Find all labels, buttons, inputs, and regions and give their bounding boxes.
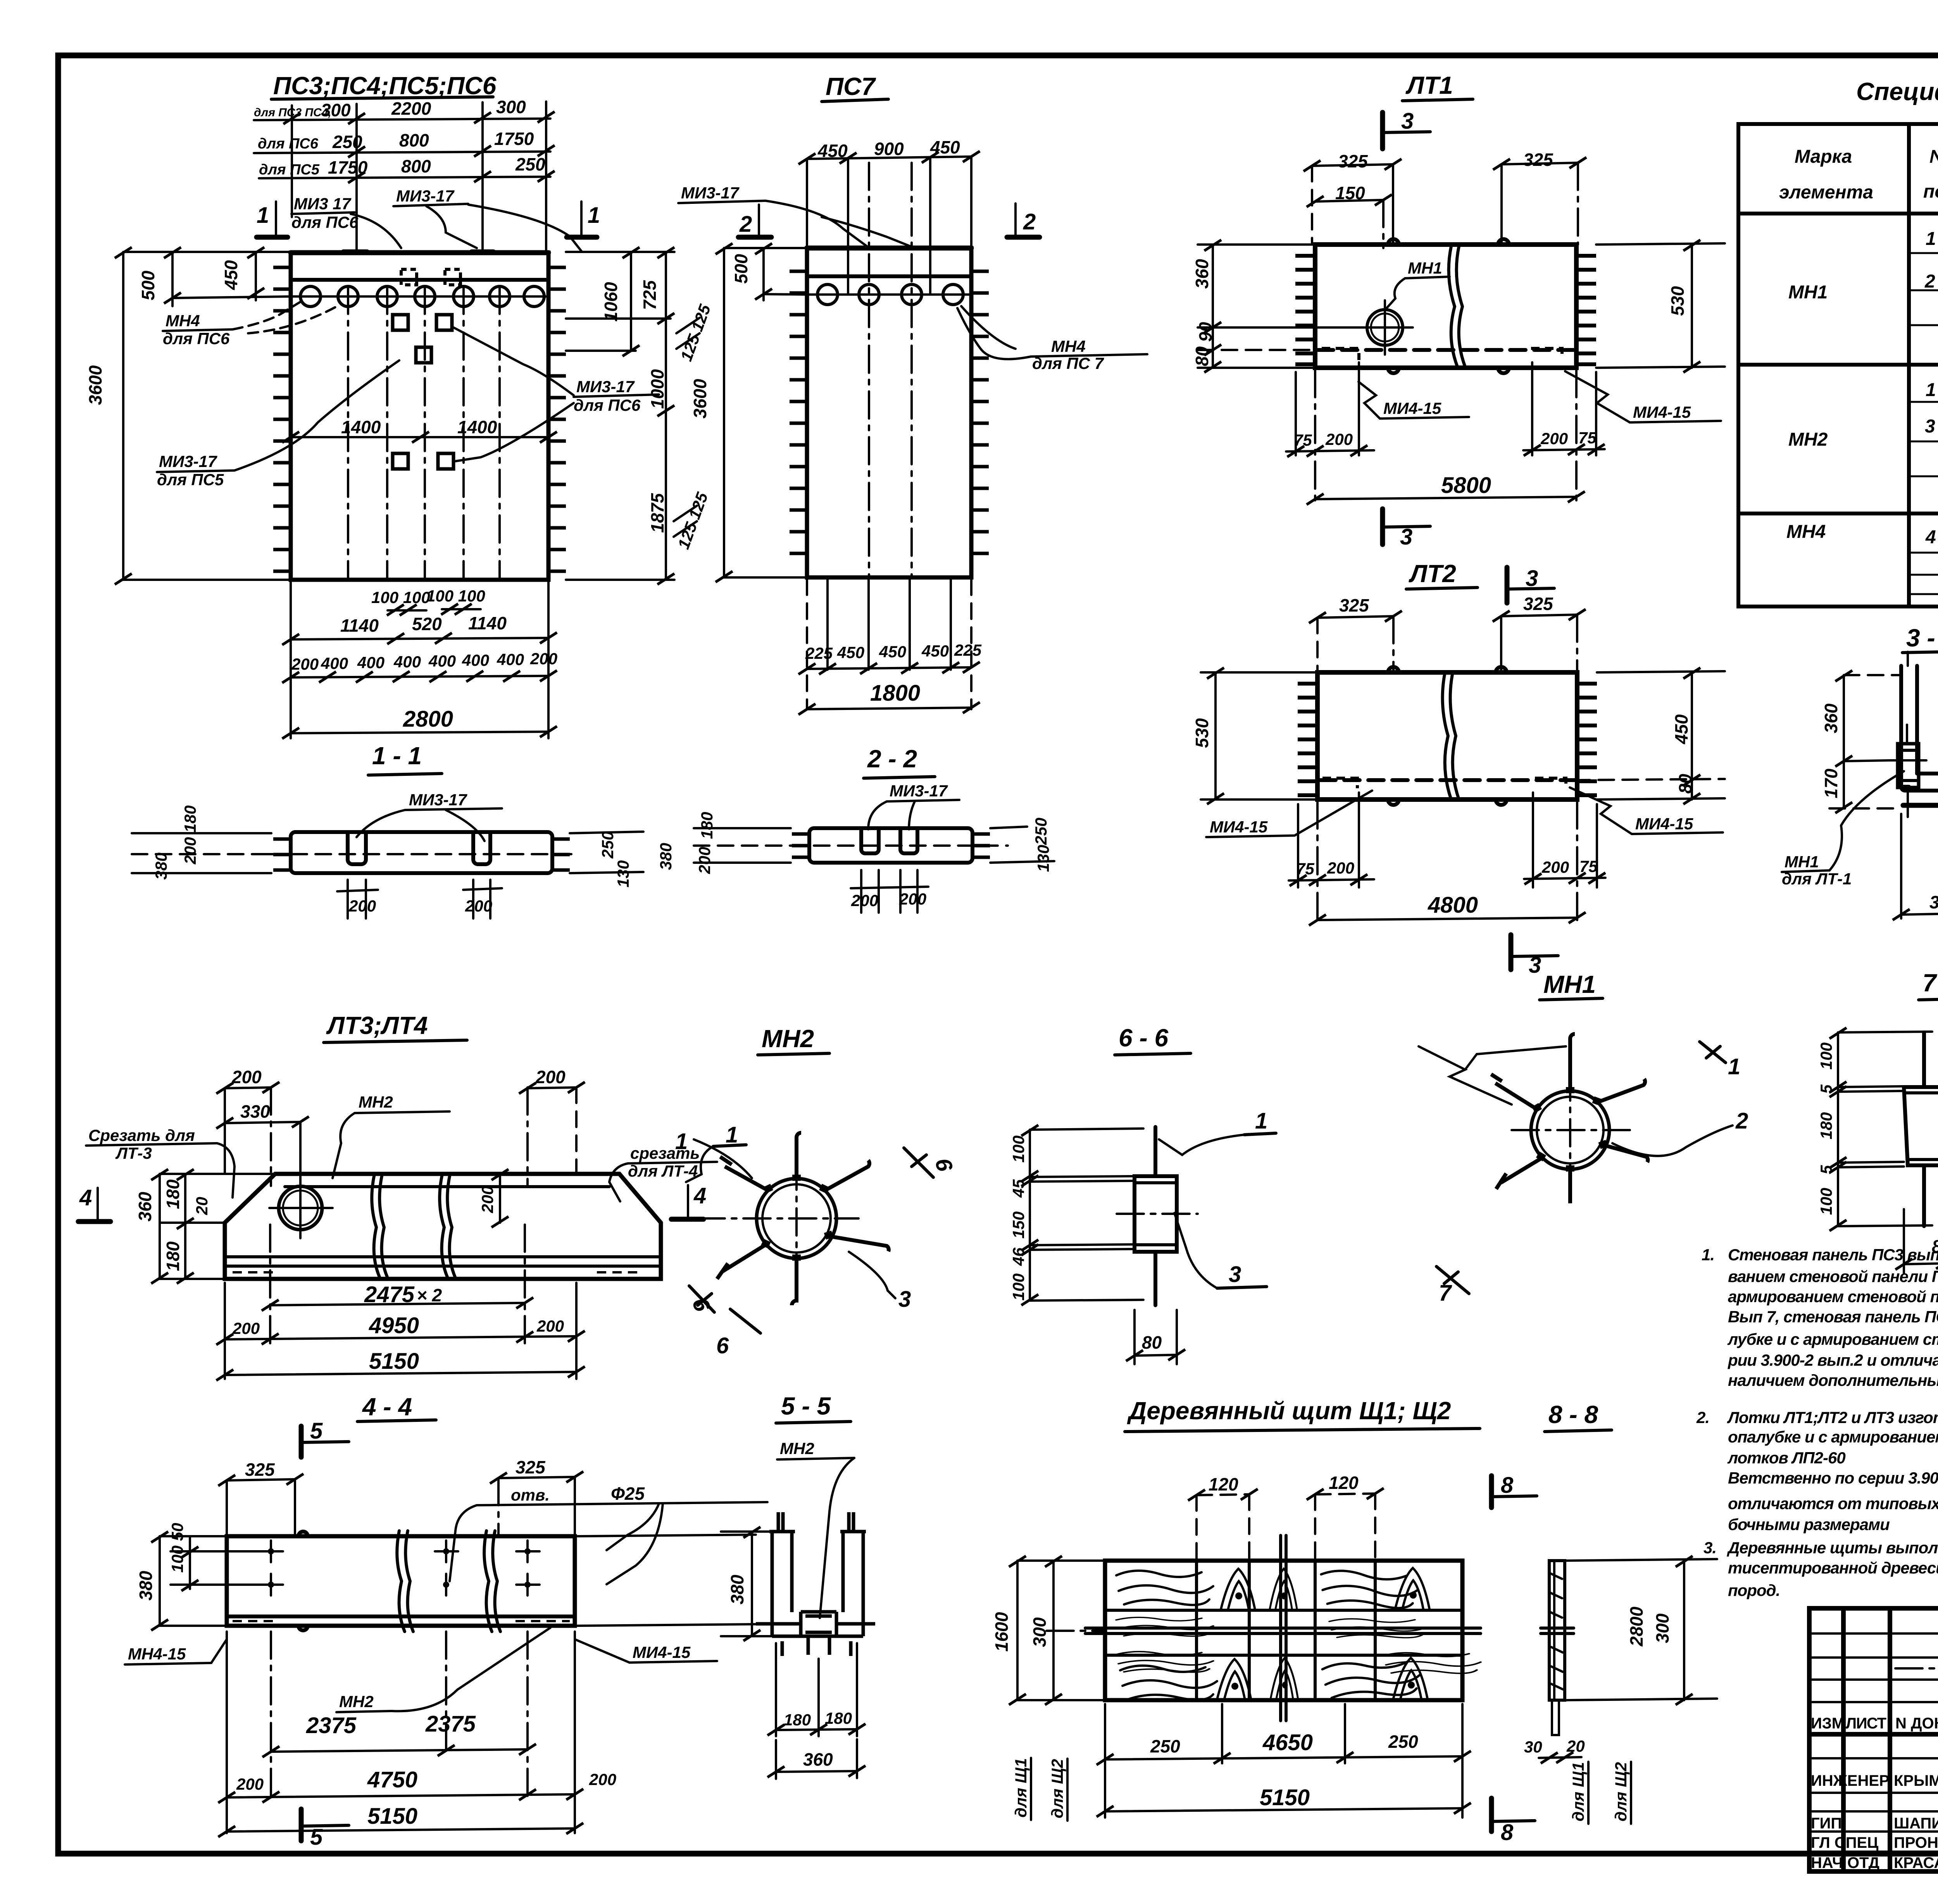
svg-text:Марка: Марка: [1795, 146, 1852, 167]
svg-text:380: 380: [657, 843, 675, 870]
svg-text:360: 360: [803, 1749, 833, 1770]
svg-text:5150: 5150: [367, 1804, 417, 1829]
svg-text:1: 1: [1255, 1108, 1267, 1134]
svg-text:ЛТ1: ЛТ1: [1405, 71, 1453, 99]
svg-text:3: 3: [1529, 953, 1541, 978]
svg-text:МИ4-15: МИ4-15: [1633, 403, 1691, 421]
svg-text:1750: 1750: [494, 129, 534, 149]
svg-text:для ЛТ-4: для ЛТ-4: [628, 1162, 698, 1180]
svg-text:Деревянные щиты выполнять из а: Деревянные щиты выполнять из ан-: [1727, 1539, 1938, 1557]
svg-text:3: 3: [1925, 416, 1935, 437]
svg-text:1140: 1140: [340, 615, 379, 636]
svg-text:Лотки ЛТ1;ЛТ2 и ЛТ3 изготовляю: Лотки ЛТ1;ЛТ2 и ЛТ3 изготовляются в: [1727, 1408, 1938, 1427]
svg-text:250: 250: [332, 132, 362, 152]
svg-text:Деревянный щит Щ1; Щ2: Деревянный щит Щ1; Щ2: [1127, 1397, 1451, 1425]
svg-text:3: 3: [1229, 1262, 1241, 1287]
svg-text:ГЛ СПЕЦ: ГЛ СПЕЦ: [1811, 1834, 1878, 1851]
svg-text:250: 250: [1150, 1736, 1180, 1756]
svg-text:180: 180: [163, 1179, 183, 1209]
svg-text:200: 200: [236, 1775, 264, 1793]
svg-text:3: 3: [898, 1287, 911, 1312]
svg-text:3: 3: [1401, 109, 1414, 134]
svg-text:200: 200: [348, 897, 376, 915]
svg-text:4: 4: [79, 1185, 92, 1210]
svg-text:ЛТ-3: ЛТ-3: [115, 1144, 152, 1162]
svg-text:4650: 4650: [1262, 1730, 1313, 1755]
svg-text:Спецификация металла на одну м: Спецификация металла на одну марку: [1856, 78, 1938, 105]
svg-text:ИНЖЕНЕР: ИНЖЕНЕР: [1811, 1772, 1890, 1789]
svg-text:МИ3-17: МИ3-17: [396, 187, 455, 205]
svg-text:8 - 8: 8 - 8: [1548, 1401, 1598, 1428]
svg-text:ШАПИРО: ШАПИРО: [1894, 1815, 1938, 1832]
svg-text:200: 200: [465, 897, 492, 915]
svg-text:МИ3-17: МИ3-17: [409, 791, 467, 809]
svg-text:360: 360: [135, 1192, 155, 1222]
svg-text:МИ3-17: МИ3-17: [681, 184, 740, 202]
svg-text:100 50: 100 50: [168, 1523, 186, 1573]
svg-text:3.: 3.: [1704, 1539, 1716, 1557]
svg-text:450: 450: [1671, 714, 1691, 744]
svg-text:для Щ1: для Щ1: [1012, 1758, 1030, 1818]
svg-text:500: 500: [731, 254, 751, 284]
svg-text:120: 120: [1209, 1474, 1238, 1494]
svg-text:МН2: МН2: [359, 1093, 393, 1111]
svg-text:2 - 2: 2 - 2: [867, 745, 917, 773]
svg-text:2800: 2800: [1626, 1606, 1647, 1647]
svg-text:МН2: МН2: [339, 1692, 374, 1711]
svg-text:200: 200: [695, 847, 714, 874]
svg-text:МН2: МН2: [780, 1439, 814, 1458]
svg-text:800: 800: [399, 130, 429, 150]
svg-text:5: 5: [310, 1825, 323, 1850]
svg-text:Срезать для: Срезать для: [88, 1126, 195, 1144]
svg-text:300: 300: [321, 100, 351, 120]
svg-text:725: 725: [640, 280, 660, 310]
svg-text:400: 400: [393, 653, 421, 671]
svg-text:МН1: МН1: [1408, 259, 1442, 277]
svg-text:100: 100: [1817, 1042, 1835, 1070]
svg-text:325: 325: [245, 1459, 275, 1480]
svg-text:325: 325: [1339, 595, 1369, 615]
svg-text:МН4: МН4: [1786, 522, 1826, 542]
svg-text:200: 200: [535, 1067, 566, 1087]
svg-text:3600: 3600: [690, 379, 710, 419]
svg-text:3 - 3: 3 - 3: [1906, 624, 1938, 652]
svg-text:ГИП: ГИП: [1811, 1815, 1842, 1832]
svg-text:2375: 2375: [306, 1713, 357, 1738]
svg-text:2375: 2375: [425, 1711, 476, 1737]
svg-text:200: 200: [232, 1319, 260, 1337]
svg-text:2: 2: [1924, 271, 1935, 292]
svg-text:380: 380: [152, 853, 170, 880]
svg-text:4750: 4750: [367, 1767, 417, 1792]
svg-text:4800: 4800: [1428, 893, 1478, 918]
svg-text:380: 380: [727, 1575, 747, 1604]
svg-text:для ПС6: для ПС6: [574, 396, 641, 414]
svg-text:180: 180: [1817, 1112, 1835, 1139]
svg-text:МН1: МН1: [1785, 853, 1819, 871]
svg-text:5150: 5150: [369, 1349, 419, 1374]
svg-text:250: 250: [1032, 818, 1050, 845]
svg-text:Ветственно по серии 3.900-2 Вы: Ветственно по серии 3.900-2 Вып.6 и: [1728, 1469, 1938, 1487]
svg-text:330: 330: [240, 1101, 270, 1122]
svg-text:для ЛТ-1: для ЛТ-1: [1782, 870, 1852, 888]
svg-text:500: 500: [138, 271, 158, 300]
svg-text:для ПС 7: для ПС 7: [1032, 354, 1104, 372]
svg-text:2: 2: [739, 212, 752, 237]
svg-text:360: 360: [1929, 892, 1938, 912]
svg-text:ванием стеновой панели ПБ41-36: ванием стеновой панели ПБ41-36-1 ПС7 - в…: [1728, 1267, 1938, 1285]
svg-text:8: 8: [1501, 1473, 1514, 1498]
svg-text:лотков ЛП2-60: лотков ЛП2-60: [1727, 1449, 1845, 1467]
svg-text:4 - 4: 4 - 4: [362, 1393, 412, 1421]
svg-text:200 180: 200 180: [181, 805, 199, 865]
svg-text:1: 1: [1926, 229, 1936, 249]
svg-text:250: 250: [1388, 1732, 1418, 1752]
svg-text:5: 5: [1817, 1165, 1835, 1174]
svg-text:530: 530: [1192, 718, 1212, 748]
svg-text:325: 325: [516, 1457, 546, 1477]
svg-text:МН2: МН2: [762, 1025, 814, 1053]
svg-text:6 - 6: 6 - 6: [1119, 1024, 1168, 1052]
svg-text:1400: 1400: [457, 417, 497, 437]
svg-text:180: 180: [825, 1709, 852, 1727]
svg-text:Вып 7, стеновая панель ПС4, ПС: Вып 7, стеновая панель ПС4, ПС5, ПС6 вып…: [1728, 1308, 1938, 1326]
svg-text:450: 450: [221, 260, 241, 290]
svg-text:1 - 1: 1 - 1: [372, 742, 422, 770]
svg-text:5 - 5: 5 - 5: [781, 1392, 831, 1420]
svg-text:N ДОК.ЧМ: N ДОК.ЧМ: [1895, 1715, 1938, 1732]
svg-text:80: 80: [1142, 1332, 1162, 1353]
svg-text:отличаются от типовых только о: отличаются от типовых только опалу-: [1728, 1494, 1938, 1513]
svg-text:ЛИСТ: ЛИСТ: [1846, 1715, 1886, 1732]
svg-text:для ПС5: для ПС5: [259, 162, 320, 178]
svg-text:225: 225: [954, 641, 982, 659]
svg-text:для Щ2: для Щ2: [1048, 1759, 1066, 1818]
svg-text:1.: 1.: [1702, 1246, 1714, 1264]
svg-text:наличием дополнительных заклад: наличием дополнительных закладных детале…: [1728, 1371, 1938, 1389]
svg-text:250: 250: [598, 831, 617, 859]
svg-text:3600: 3600: [85, 365, 105, 405]
svg-text:250: 250: [515, 154, 545, 174]
svg-text:2: 2: [1735, 1108, 1748, 1134]
svg-text:400: 400: [357, 653, 384, 672]
svg-text:2800: 2800: [403, 706, 453, 732]
svg-text:8: 8: [1501, 1820, 1514, 1845]
svg-text:100: 100: [1009, 1136, 1028, 1163]
svg-text:200: 200: [231, 1067, 262, 1087]
svg-text:530: 530: [1667, 286, 1688, 316]
svg-text:МИ3-17: МИ3-17: [890, 782, 948, 800]
svg-text:1400: 1400: [341, 417, 381, 437]
svg-text:лубке и с армированием стеново: лубке и с армированием стеновой панели П…: [1727, 1330, 1938, 1348]
svg-text:элемента: элемента: [1779, 182, 1873, 203]
svg-text:ПС7: ПС7: [826, 72, 876, 100]
svg-text:МН4: МН4: [166, 312, 200, 330]
svg-text:130: 130: [1034, 845, 1052, 872]
svg-text:450: 450: [837, 643, 864, 662]
svg-text:5150: 5150: [1260, 1785, 1310, 1810]
svg-text:5: 5: [310, 1418, 323, 1444]
svg-text:для Щ2: для Щ2: [1612, 1762, 1630, 1821]
svg-text:200: 200: [291, 655, 319, 673]
svg-text:200: 200: [1327, 859, 1354, 877]
svg-text:300: 300: [1652, 1613, 1672, 1643]
svg-text:для Щ1: для Щ1: [1569, 1762, 1587, 1821]
svg-text:200: 200: [899, 890, 926, 908]
svg-text:НАЧ ОТД: НАЧ ОТД: [1811, 1854, 1879, 1871]
svg-text:46: 46: [1009, 1248, 1028, 1266]
svg-text:800: 800: [401, 156, 431, 176]
svg-text:2: 2: [1023, 209, 1036, 234]
svg-text:180: 180: [163, 1241, 183, 1271]
svg-text:200: 200: [530, 650, 557, 668]
svg-text:5800: 5800: [1441, 473, 1491, 498]
svg-text:7: 7: [1439, 1280, 1452, 1306]
svg-text:МИ3-17: МИ3-17: [159, 452, 217, 470]
svg-text:для ПС6: для ПС6: [258, 136, 319, 152]
svg-text:200: 200: [1325, 430, 1353, 448]
svg-text:450: 450: [879, 643, 906, 661]
svg-text:№: №: [1929, 146, 1938, 167]
svg-text:ИЗМ: ИЗМ: [1811, 1715, 1845, 1732]
svg-text:75: 75: [1579, 857, 1598, 875]
svg-text:для ПС6: для ПС6: [291, 213, 359, 231]
svg-text:520: 520: [412, 614, 442, 634]
svg-text:Стеновая панель ПС3 выполняетс: Стеновая панель ПС3 выполняется в опалуб…: [1728, 1246, 1938, 1264]
svg-text:170: 170: [1821, 768, 1841, 798]
svg-text:ПС3;ПС4;ПС5;ПС6: ПС3;ПС4;ПС5;ПС6: [273, 72, 497, 100]
svg-text:МН4: МН4: [1051, 337, 1086, 355]
svg-text:срезать: срезать: [630, 1144, 700, 1162]
svg-text:400: 400: [462, 651, 489, 669]
svg-text:пород.: пород.: [1728, 1581, 1780, 1599]
svg-text:1060: 1060: [601, 282, 621, 322]
svg-text:150: 150: [1009, 1211, 1028, 1239]
svg-text:100 100: 100 100: [371, 588, 430, 607]
svg-text:для ПС5: для ПС5: [157, 470, 224, 489]
svg-text:отв.: отв.: [511, 1486, 550, 1504]
svg-text:тисептированной древесины хвой: тисептированной древесины хвойных: [1728, 1559, 1938, 1577]
svg-text:МИ4-15: МИ4-15: [1635, 815, 1693, 833]
svg-text:300: 300: [1029, 1617, 1050, 1647]
svg-text:МИ3-17: МИ3-17: [576, 377, 635, 396]
svg-text:МИ3 17: МИ3 17: [294, 195, 352, 213]
svg-text:МИ4-15: МИ4-15: [1383, 399, 1441, 417]
svg-text:3: 3: [1526, 566, 1538, 591]
svg-text:200: 200: [589, 1770, 616, 1789]
svg-text:45: 45: [1009, 1179, 1028, 1198]
svg-text:200: 200: [536, 1317, 564, 1335]
svg-text:380: 380: [136, 1571, 156, 1601]
svg-text:75: 75: [1578, 429, 1597, 447]
svg-text:ПРОНИН: ПРОНИН: [1894, 1834, 1938, 1851]
svg-text:армированием стеновой панели П: армированием стеновой панели ПБУ2-36-1 п…: [1728, 1287, 1938, 1306]
svg-text:360: 360: [1192, 259, 1212, 289]
svg-text:100: 100: [1817, 1188, 1835, 1215]
svg-text:× 2: × 2: [417, 1285, 442, 1305]
svg-text:1: 1: [257, 203, 269, 228]
svg-text:325: 325: [1523, 594, 1554, 614]
svg-text:1: 1: [1926, 380, 1936, 400]
svg-text:450: 450: [921, 642, 949, 660]
svg-text:1875: 1875: [647, 493, 667, 533]
svg-text:МИ4-15: МИ4-15: [633, 1643, 691, 1661]
svg-text:1: 1: [1728, 1054, 1740, 1079]
svg-text:3: 3: [1400, 524, 1412, 550]
svg-text:МН1: МН1: [1543, 970, 1596, 998]
svg-text:Ф25: Ф25: [611, 1484, 645, 1504]
svg-text:МИ4-15: МИ4-15: [1210, 818, 1268, 836]
svg-text:325: 325: [1338, 151, 1368, 171]
svg-text:5: 5: [1817, 1084, 1835, 1094]
svg-text:7 - 7: 7 - 7: [1922, 969, 1938, 997]
svg-text:1140: 1140: [468, 613, 507, 633]
svg-text:180: 180: [784, 1711, 811, 1729]
svg-text:100: 100: [1009, 1273, 1028, 1301]
svg-text:30: 30: [1524, 1738, 1542, 1756]
svg-text:поз: поз: [1923, 181, 1938, 202]
svg-text:опалубке и с армированием типо: опалубке и с армированием типовых: [1728, 1428, 1938, 1446]
svg-text:4950: 4950: [369, 1313, 419, 1338]
svg-text:2200: 2200: [391, 98, 431, 119]
svg-text:1800: 1800: [870, 681, 920, 706]
svg-text:2.: 2.: [1696, 1408, 1709, 1427]
svg-text:для ПС6: для ПС6: [163, 329, 230, 348]
svg-text:400: 400: [428, 652, 456, 670]
svg-text:120: 120: [1329, 1473, 1359, 1493]
svg-text:360: 360: [1821, 703, 1841, 733]
svg-text:200: 200: [478, 1186, 497, 1213]
svg-text:900: 900: [874, 139, 904, 159]
svg-text:6: 6: [716, 1333, 729, 1358]
svg-text:МН2: МН2: [1788, 429, 1828, 450]
svg-text:бочными размерами: бочными размерами: [1728, 1515, 1890, 1534]
svg-text:4: 4: [1925, 527, 1936, 548]
svg-text:МН1: МН1: [1788, 282, 1828, 303]
svg-text:МН4-15: МН4-15: [128, 1645, 186, 1663]
svg-text:180: 180: [698, 812, 716, 839]
svg-text:200: 200: [851, 891, 878, 910]
svg-text:1: 1: [588, 203, 600, 228]
svg-text:225: 225: [805, 644, 833, 662]
svg-text:200: 200: [1540, 429, 1568, 448]
svg-text:400: 400: [497, 650, 524, 669]
svg-text:1600: 1600: [991, 1612, 1012, 1652]
svg-text:200: 200: [1541, 858, 1569, 876]
svg-text:рии 3.900-2 вып.2 и отличается: рии 3.900-2 вып.2 и отличается от послед…: [1728, 1351, 1938, 1369]
svg-text:20: 20: [193, 1197, 211, 1215]
svg-text:ЛТ3;ЛТ4: ЛТ3;ЛТ4: [326, 1011, 428, 1039]
svg-text:130: 130: [614, 860, 632, 887]
svg-text:100 100: 100 100: [426, 587, 485, 605]
svg-text:325: 325: [1523, 150, 1554, 170]
svg-text:400: 400: [321, 654, 348, 672]
svg-text:1000: 1000: [647, 369, 667, 409]
svg-text:ЛТ2: ЛТ2: [1409, 560, 1456, 588]
svg-text:20: 20: [1566, 1737, 1585, 1755]
svg-text:300: 300: [496, 97, 526, 117]
svg-text:КРЫМСКИЙ: КРЫМСКИЙ: [1894, 1771, 1938, 1789]
svg-text:4: 4: [693, 1183, 706, 1208]
svg-text:КРАСАВИН: КРАСАВИН: [1894, 1854, 1938, 1871]
